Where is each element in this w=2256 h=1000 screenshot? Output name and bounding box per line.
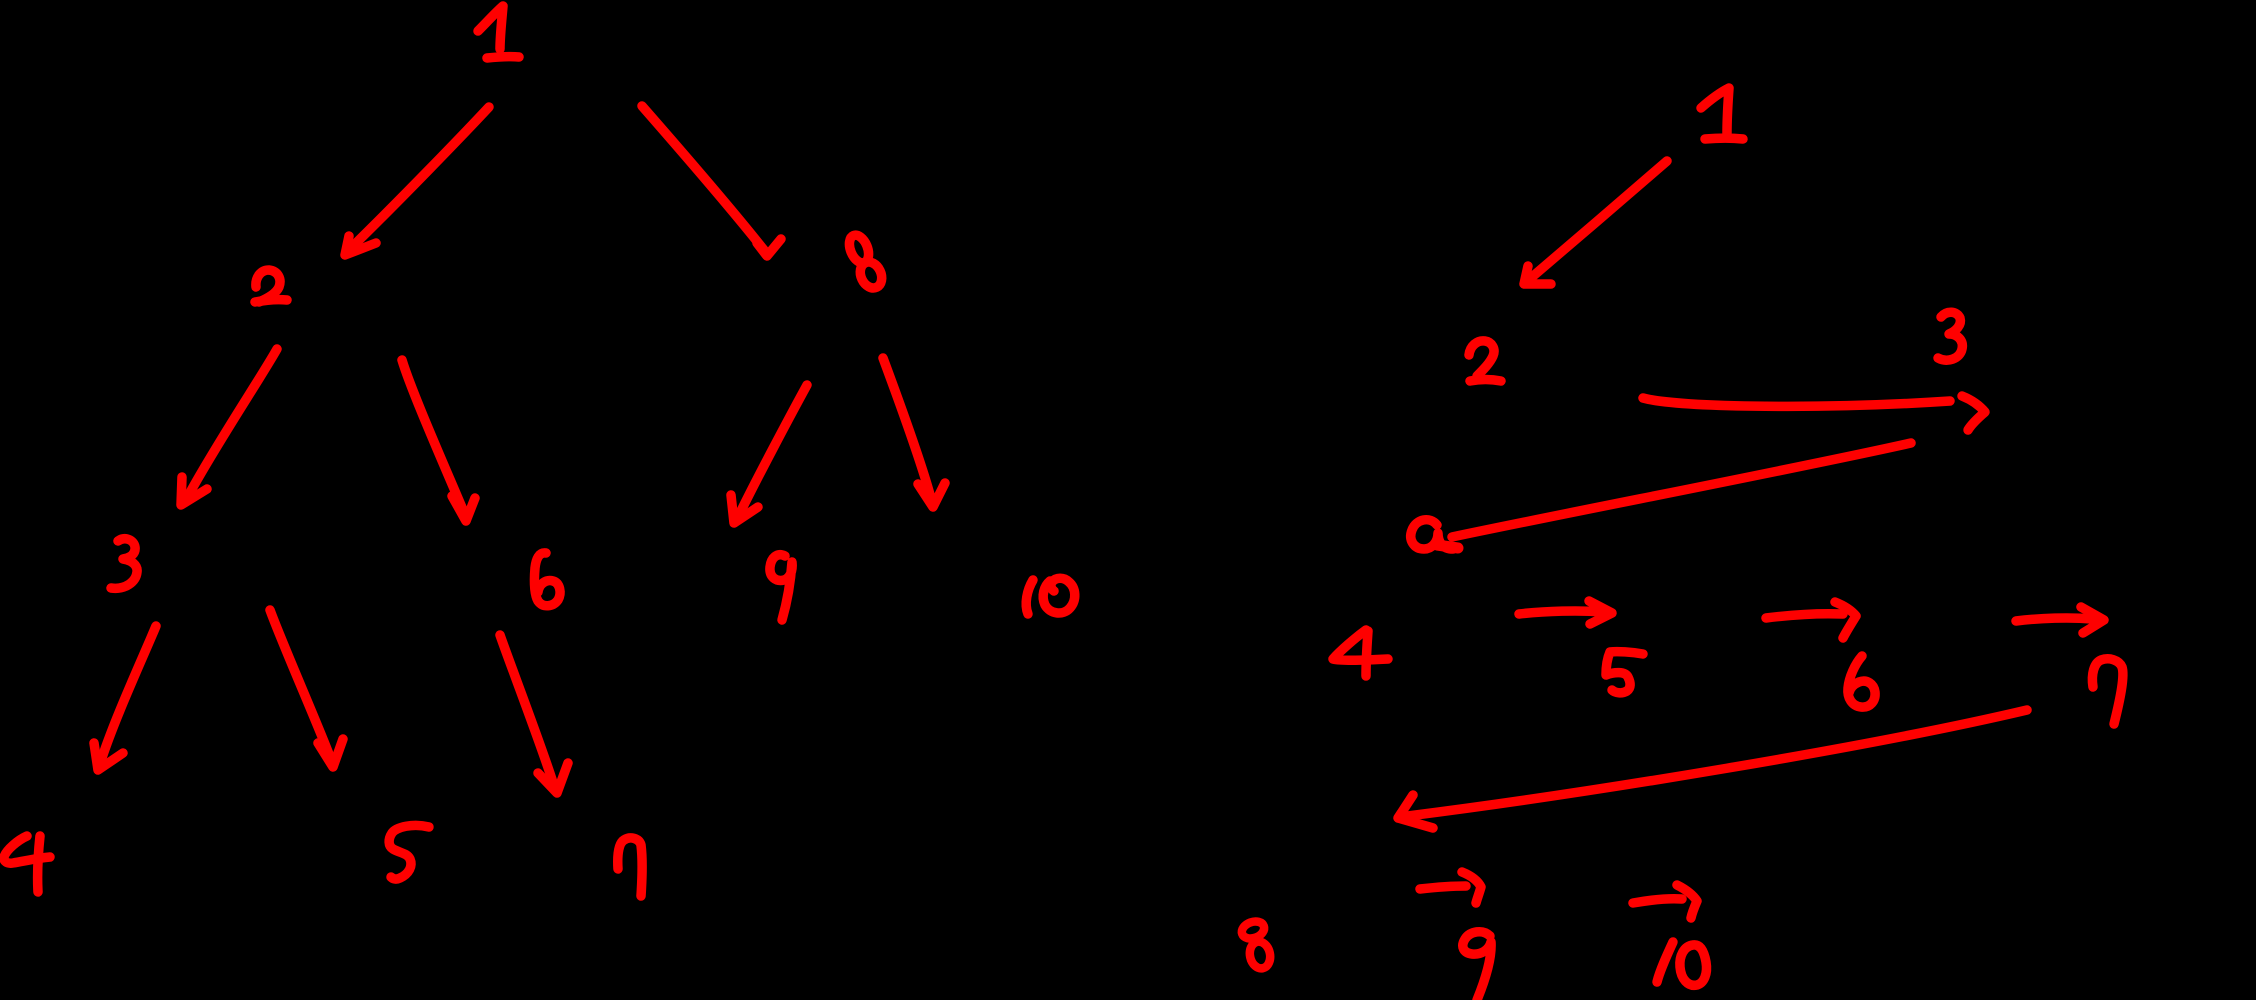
node 8 (right list)	[1239, 919, 1266, 942]
node 3 (right list)	[1938, 312, 1962, 360]
wire edge right 5 to 6	[1766, 614, 1843, 618]
wire edge 2 to 3	[187, 349, 277, 498]
wire edge right 1 to 2	[1532, 161, 1667, 277]
arrowhead at node 4	[94, 743, 123, 770]
wire edge right 6 to 7	[2016, 618, 2092, 621]
node 4 (right list)	[1333, 630, 1388, 660]
node 3 (left tree)	[111, 539, 137, 589]
wire edge 1 to 8	[642, 106, 764, 250]
node 8 (left tree)	[846, 232, 873, 265]
wire edge 3 to 4	[100, 626, 156, 764]
wire edge 8 to 9	[738, 385, 807, 517]
node 7 (right list)	[2092, 659, 2123, 724]
wire edge right 2 to 3	[1643, 398, 1950, 406]
node 6 (right list)	[1848, 656, 1875, 707]
node 9 (right list)	[1463, 932, 1491, 1000]
arrowhead at node 8	[757, 239, 781, 256]
arrowhead at right node 10	[1677, 885, 1697, 918]
arrowhead at right node 2	[1524, 266, 1551, 284]
wire edge right 7 back to 4 row	[1408, 710, 2027, 816]
arrowhead at right node 7	[2081, 607, 2104, 633]
wire edge 6 to 7	[500, 635, 555, 789]
node 7 (left tree)	[618, 838, 642, 896]
arrowhead at right node 3	[1962, 396, 1985, 430]
wire edge 1 to 2	[352, 107, 489, 247]
wire edge right 4 to 5	[1519, 611, 1602, 614]
arrowhead at right node 9	[1462, 872, 1481, 903]
wire edge right 3 back to 2	[1452, 443, 1911, 537]
arrowhead of long back edge	[1398, 795, 1433, 828]
arrowhead at node 3	[181, 477, 207, 505]
arrowhead at node 6	[452, 496, 475, 521]
arrowhead at right node 5	[1589, 601, 1612, 624]
wire edge 2 to 6	[402, 360, 466, 517]
wire edge 8 to 10	[883, 358, 932, 502]
node 4 (left tree)	[4, 836, 50, 863]
node 5 (right list)	[1606, 652, 1643, 693]
arrowhead of back edge	[1437, 545, 1458, 548]
arrowhead at node 9	[731, 495, 758, 523]
node 10 (left tree)	[1026, 580, 1033, 614]
arrowhead at right node 6	[1835, 602, 1856, 638]
arrowhead at node 10	[918, 483, 945, 507]
wire edge right 9 to 10	[1633, 899, 1682, 903]
arrowhead at node 7	[538, 763, 568, 793]
node 1 (right list)	[1701, 88, 1729, 133]
wire edge 3 to 5	[270, 610, 332, 762]
arrowhead at node 5	[318, 739, 343, 767]
node 10 (right list)	[1657, 942, 1673, 982]
arrowhead at node 2	[345, 236, 376, 255]
node 1 (left tree root)	[478, 6, 503, 49]
node 2 (left tree)	[256, 270, 280, 302]
node 6 (left tree)	[534, 553, 560, 606]
wire edge right 8 to 9	[1420, 886, 1466, 889]
node 5 (left tree)	[389, 825, 429, 879]
node 9 (left tree)	[770, 555, 792, 620]
node a (revisited 2, right list)	[1411, 520, 1453, 549]
node 2 (right list)	[1469, 341, 1494, 376]
